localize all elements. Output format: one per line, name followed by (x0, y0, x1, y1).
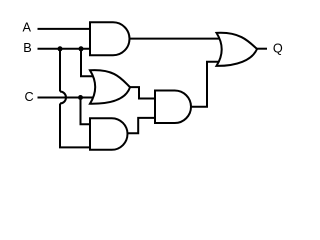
svg-text:A: A (23, 20, 32, 34)
svg-text:B: B (23, 41, 31, 55)
svg-text:Q: Q (273, 42, 283, 56)
svg-text:C: C (25, 90, 34, 104)
